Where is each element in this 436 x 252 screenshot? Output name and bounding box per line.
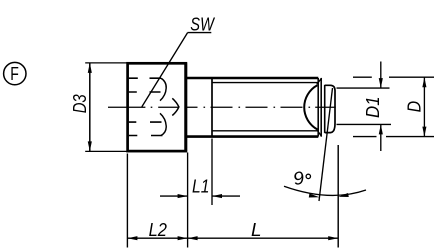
thread end chamfer bottom (317, 130, 322, 137)
9 deg angle arc (284, 186, 366, 195)
9 deg tilted flat line (319, 88, 333, 201)
head outline (128, 63, 186, 151)
L1 arrow left (178, 194, 188, 198)
D1 dimension line upper (380, 62, 382, 89)
thread end vertical (317, 78, 319, 137)
D extension bottom (353, 136, 434, 138)
hex socket hidden dashes row3 (129, 121, 162, 123)
9 deg arrow on tilted line (309, 193, 320, 197)
D3 arrow bottom (88, 141, 92, 151)
hex socket hidden dashes row4 (129, 135, 163, 137)
L1 dimension line right (212, 195, 240, 197)
D3 dimension extension bottom (85, 150, 128, 152)
D1 arrow upper (379, 78, 383, 88)
L2 arrow right (178, 236, 188, 240)
D1 extension top (337, 87, 390, 89)
L arrow left (188, 236, 198, 240)
hex socket hidden dashes row2 (129, 91, 161, 93)
thread root top (212, 82, 318, 84)
D1 extension bottom (337, 123, 392, 125)
L2 dimension line (127, 237, 187, 239)
D extension top (353, 76, 434, 78)
D1 arrow lower (379, 124, 383, 134)
svg-text:L1: L1 (192, 176, 209, 196)
D1 dimension line lower (380, 125, 382, 151)
centerline (108, 106, 336, 108)
L2 extension left (126, 154, 128, 248)
L1 extension thread start (211, 139, 213, 206)
D arrow top (422, 77, 426, 87)
hex socket hidden dashes row1 (129, 77, 161, 79)
hex socket lower brace (160, 113, 166, 135)
SW leader (142, 33, 212, 107)
9 deg arrow on vertical line (338, 193, 349, 197)
L2 arrow left (127, 236, 137, 240)
L1 extension head face (187, 153, 189, 248)
ball holder cap outline (324, 85, 326, 133)
svg-text:SW: SW (190, 15, 215, 35)
hex socket cone tip (172, 98, 179, 115)
thread end second vertical (320, 78, 322, 137)
L arrow right (328, 236, 338, 240)
shaft OD bottom line (187, 135, 318, 138)
D3 dimension extension top (85, 62, 128, 64)
D3 arrow top (88, 63, 92, 73)
L dimension line (188, 237, 339, 239)
thread root bottom (212, 130, 318, 132)
svg-text:D: D (405, 101, 425, 113)
svg-text:D3: D3 (70, 94, 90, 113)
head right face thick line (184, 63, 187, 151)
thread end chamfer top (317, 78, 322, 84)
hex socket upper brace (160, 78, 166, 101)
view label circle F (4, 62, 26, 84)
svg-text:L2: L2 (149, 220, 167, 240)
thread start vertical (211, 78, 213, 137)
D3 dimension line (89, 63, 91, 151)
L1 dimension line left (160, 195, 187, 197)
ball arc (304, 85, 317, 129)
svg-text:9: 9 (291, 167, 306, 189)
D dimension line (423, 77, 425, 136)
svg-text:D1: D1 (363, 96, 383, 118)
shaft OD top line (187, 77, 318, 80)
svg-text:F: F (10, 64, 19, 84)
L tip extension line (337, 145, 339, 248)
L1 arrow right (212, 194, 222, 198)
D arrow bottom (422, 127, 426, 137)
svg-text:L: L (251, 220, 262, 240)
